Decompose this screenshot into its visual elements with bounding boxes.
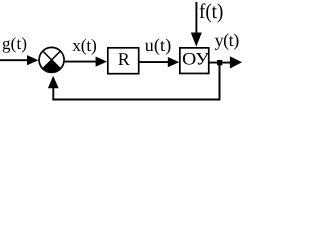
wire: disturbance f(t) vertical: [195, 2, 197, 35]
arrowhead into OU top: [191, 33, 202, 47]
wire: feedback left vertical: [52, 87, 54, 100]
svg-text:x(t): x(t): [72, 35, 97, 55]
arrowhead into R: [96, 57, 107, 67]
svg-text:y(t): y(t): [215, 30, 240, 50]
summing junction filled bottom sector: [43, 60, 61, 73]
summing junction X diagonal 1: [43, 51, 61, 69]
arrowhead into OU: [168, 57, 179, 67]
block OU box: [180, 48, 209, 74]
wire: input g(t) line: [0, 59, 29, 61]
block R box: [108, 48, 139, 74]
output arrowhead y(t): [230, 56, 242, 68]
svg-text:g(t): g(t): [2, 34, 27, 53]
wire: OU output: [209, 62, 231, 64]
arrowhead into summing junction: [27, 55, 38, 65]
wire: feedback right vertical: [219, 63, 221, 100]
svg-text:ОУ: ОУ: [182, 49, 210, 69]
svg-text:R: R: [118, 49, 130, 69]
wire: R to OU: [140, 61, 170, 63]
summing junction X diagonal 2: [43, 51, 61, 69]
summing junction circle: [39, 47, 64, 72]
junction node dot: [217, 60, 222, 65]
arrowhead into summing junction bottom: [48, 76, 59, 89]
wire: feedback bottom horizontal: [52, 98, 220, 100]
svg-text:u(t): u(t): [145, 35, 171, 55]
wire: summing junction to R: [65, 61, 96, 63]
svg-text:f(t): f(t): [199, 0, 223, 23]
